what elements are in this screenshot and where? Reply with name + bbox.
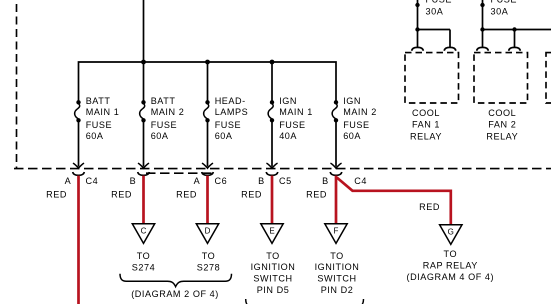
off-page connector triangle F	[325, 224, 347, 244]
svg-text:FAN 2: FAN 2	[488, 120, 516, 130]
connector dome right pin	[444, 47, 456, 50]
junction dot bus branch3	[205, 60, 210, 65]
svg-text:C5: C5	[279, 176, 292, 186]
wire drop left pin	[417, 30, 419, 48]
wire fuse to connector	[271, 120, 273, 166]
svg-text:RED: RED	[306, 189, 327, 199]
wire fuse 30A feed 1	[417, 0, 419, 30]
svg-text:C6: C6	[215, 176, 228, 186]
label TO S274	[132, 251, 155, 272]
svg-text:FAN 1: FAN 1	[412, 120, 440, 130]
off-page connector triangle E	[261, 224, 283, 244]
connector cup C4	[330, 172, 342, 175]
svg-text:RED: RED	[111, 189, 132, 199]
wire fuse to connector	[207, 120, 209, 166]
arrowhead into connector	[138, 163, 149, 168]
svg-text:TO: TO	[330, 251, 344, 261]
brace diagram 2 of 4	[120, 274, 232, 287]
svg-text:C4: C4	[86, 176, 99, 186]
wire RED to triangle	[206, 176, 209, 224]
svg-text:MAIN 2: MAIN 2	[343, 107, 377, 117]
svg-text:S274: S274	[132, 263, 155, 273]
svg-text:RED: RED	[176, 189, 197, 199]
svg-text:60A: 60A	[343, 131, 361, 141]
arrowhead into connector	[330, 163, 341, 168]
wire fuse 30A feed 2	[482, 0, 484, 30]
off-page connector triangle C	[132, 224, 154, 244]
off-page connector triangle D	[196, 224, 218, 244]
label TO RAP RELAY DIAGRAM 4 OF 4	[406, 249, 494, 282]
svg-text:40A: 40A	[279, 131, 297, 141]
junction dot fuse bottom	[415, 3, 419, 7]
wire fuse to connector	[335, 120, 337, 166]
svg-text:IGNITION: IGNITION	[315, 262, 360, 272]
svg-text:TO: TO	[202, 251, 216, 261]
label COOL FAN 1 RELAY	[410, 108, 442, 141]
wire fuse to connector	[143, 120, 145, 166]
junction dot relay2 pin2	[512, 27, 516, 31]
svg-text:RED: RED	[419, 202, 440, 212]
label TO IGNITION SWITCH PIN D2	[315, 251, 360, 295]
svg-text:FUSE: FUSE	[86, 120, 112, 130]
svg-text:SWITCH: SWITCH	[317, 274, 356, 284]
svg-text:D: D	[205, 226, 211, 235]
connector dome right pin	[509, 47, 521, 50]
svg-text:30A: 30A	[491, 6, 509, 16]
svg-text:TO: TO	[266, 251, 280, 261]
svg-text:RED: RED	[46, 189, 67, 199]
svg-text:IGN: IGN	[343, 96, 361, 106]
svg-text:A: A	[194, 176, 201, 186]
svg-text:TO: TO	[137, 251, 151, 261]
arrowhead into connector	[266, 163, 277, 168]
connector dome left pin	[477, 47, 489, 50]
fuse F4 IGN MAIN 1 FUSE 40A	[268, 100, 274, 122]
fuse block dashed border bottom horizontal	[14, 168, 551, 170]
fuse F1 BATT MAIN 1 FUSE 60A	[75, 100, 81, 122]
svg-text:PIN D2: PIN D2	[321, 285, 354, 295]
svg-text:A: A	[65, 176, 72, 186]
wire RED to triangle	[142, 176, 145, 224]
wire drop right pin	[514, 30, 516, 48]
svg-text:F: F	[334, 226, 339, 235]
wire RED branch1 down off-page	[77, 176, 80, 304]
svg-text:FUSE: FUSE	[426, 0, 452, 4]
svg-text:IGNITION: IGNITION	[251, 262, 296, 272]
svg-text:BATT: BATT	[86, 96, 111, 106]
svg-text:B: B	[130, 176, 137, 186]
svg-text:60A: 60A	[151, 131, 169, 141]
svg-text:C4: C4	[354, 176, 367, 186]
svg-text:(DIAGRAM 2 OF 4): (DIAGRAM 2 OF 4)	[131, 289, 219, 299]
svg-text:60A: 60A	[215, 131, 233, 141]
off-page connector triangle G	[440, 225, 462, 245]
connector dome left pin	[412, 47, 424, 50]
fuse F2 BATT MAIN 2 FUSE 60A	[140, 100, 146, 122]
connector cup C4	[73, 172, 85, 175]
svg-text:COOL: COOL	[488, 108, 516, 118]
svg-text:MAIN 1: MAIN 1	[86, 107, 120, 117]
svg-text:B: B	[258, 176, 265, 186]
connector cup	[138, 172, 150, 175]
svg-text:E: E	[269, 226, 274, 235]
svg-text:(DIAGRAM 4 OF 4): (DIAGRAM 4 OF 4)	[406, 272, 494, 282]
svg-text:G: G	[448, 227, 454, 236]
junction dot split	[415, 27, 419, 31]
brace diagram 3 of 4 partial	[246, 299, 364, 304]
svg-text:60A: 60A	[86, 131, 104, 141]
relay K2 COOL FAN 2 RELAY box	[474, 53, 528, 103]
fuse F5 IGN MAIN 2 FUSE 60A	[332, 100, 338, 122]
svg-text:FUSE: FUSE	[215, 120, 241, 130]
svg-text:PIN D5: PIN D5	[257, 285, 290, 295]
svg-text:RED: RED	[241, 189, 262, 199]
label TO IGNITION SWITCH PIN D5	[251, 251, 296, 295]
svg-text:30A: 30A	[426, 6, 444, 16]
wire split horizontal	[418, 29, 451, 31]
svg-text:FUSE: FUSE	[491, 0, 517, 4]
junction dot fuse bottom	[480, 3, 484, 7]
relay K1 COOL FAN 1 RELAY box	[405, 53, 459, 103]
wire branch4 drop	[271, 62, 273, 101]
fuse F3 HEAD- LAMPS FUSE 60A	[204, 100, 210, 122]
junction dot bus branch4	[270, 60, 275, 65]
wire RED to triangle	[271, 176, 274, 224]
relay K3 partial box at edge	[546, 53, 551, 103]
label TO S278	[197, 251, 220, 272]
arrowhead into connector	[202, 163, 213, 168]
svg-text:B: B	[322, 176, 329, 186]
svg-text:MAIN 1: MAIN 1	[279, 107, 313, 117]
junction dot bus branch2	[141, 60, 146, 65]
wire RED to triangle	[335, 176, 338, 224]
wire branch2 drop	[143, 62, 145, 101]
svg-text:LAMPS: LAMPS	[215, 107, 249, 117]
svg-text:TO: TO	[444, 249, 458, 259]
svg-text:C: C	[141, 226, 147, 235]
wire split horizontal to edge	[483, 29, 551, 31]
svg-text:HEAD-: HEAD-	[215, 96, 246, 106]
wire branch3 drop	[207, 62, 209, 101]
connector cup C5	[266, 172, 278, 175]
junction dot split	[480, 27, 484, 31]
svg-text:SWITCH: SWITCH	[253, 274, 292, 284]
svg-text:FUSE: FUSE	[151, 120, 177, 130]
svg-text:RELAY: RELAY	[410, 132, 442, 142]
arrowhead into connector	[73, 163, 84, 168]
wire feed from top	[143, 0, 145, 62]
wire fuse to connector	[78, 120, 80, 166]
wire drop right pin	[449, 30, 451, 48]
wire drop left pin	[482, 30, 484, 48]
svg-text:FUSE: FUSE	[343, 120, 369, 130]
svg-text:S278: S278	[197, 263, 220, 273]
svg-text:RAP RELAY: RAP RELAY	[423, 261, 478, 271]
svg-text:MAIN 2: MAIN 2	[151, 107, 185, 117]
connector cup C6	[202, 172, 214, 175]
secondary dashed boundary segment	[146, 172, 212, 174]
svg-text:IGN: IGN	[279, 96, 297, 106]
svg-text:FUSE: FUSE	[279, 120, 305, 130]
wire RED branch5 to triangle G	[337, 178, 451, 225]
svg-text:COOL: COOL	[412, 108, 440, 118]
label COOL FAN 2 RELAY	[486, 108, 518, 141]
svg-text:BATT: BATT	[151, 96, 176, 106]
fuse block dashed border left vertical	[16, 4, 18, 169]
svg-text:RELAY: RELAY	[486, 132, 518, 142]
wire bus horizontal	[79, 62, 337, 101]
